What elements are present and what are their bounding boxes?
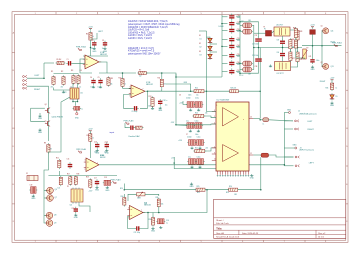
- ground C24: [189, 130, 192, 132]
- svg-text:D3: D3: [199, 51, 201, 53]
- inductor L3b: [242, 29, 253, 34]
- wire long bottom rail: [124, 189, 261, 191]
- junction IC1B out: [147, 90, 149, 92]
- wire bottom rail from zobel: [240, 67, 259, 73]
- wire pot to C42: [74, 102, 76, 106]
- svg-text:Kostka DAC: Kostka DAC: [129, 135, 141, 138]
- svg-text:GND: GND: [330, 105, 335, 107]
- junction supply branch: [175, 76, 177, 78]
- connector X1 pin 4: [23, 87, 27, 89]
- svg-text:10k: 10k: [161, 204, 164, 206]
- wire R10 to IC1B: [123, 87, 132, 89]
- svg-text:LEFT: LEFT: [308, 121, 314, 123]
- frame division ticks bottom: [56, 240, 305, 242]
- svg-text:C10u: C10u: [195, 97, 199, 99]
- resistor R13: [151, 96, 154, 107]
- capacitor C42 electrolytic: [73, 107, 81, 111]
- wire rail stub up: [123, 184, 125, 190]
- capacitor C3: [103, 41, 107, 47]
- svg-text:Q11: Q11: [331, 31, 334, 33]
- ground input divider: [62, 91, 65, 93]
- transistor Q7: [46, 195, 54, 202]
- ground near RL2: [269, 65, 272, 67]
- svg-text:Q8: Q8: [54, 215, 56, 217]
- resistor R35: [330, 82, 333, 91]
- capacitor C13: [95, 142, 99, 148]
- connector X1 pin 1: [23, 75, 27, 77]
- svg-text:R10: R10: [119, 78, 122, 80]
- resistor R11: [160, 78, 163, 88]
- notes text block (component sizes): [128, 20, 180, 40]
- svg-text:C11 1u: C11 1u: [163, 100, 168, 102]
- svg-text:R17: R17: [67, 174, 70, 176]
- frame division ticks left: [12, 52, 15, 204]
- svg-text:C31: C31: [237, 22, 240, 24]
- resistor R1: [52, 75, 55, 85]
- svg-text:R3: R3: [71, 70, 73, 72]
- svg-text:C37: C37: [237, 70, 240, 72]
- wire C21 to inverting input: [128, 217, 135, 229]
- ground C27: [198, 147, 201, 149]
- svg-text:P2: P2: [65, 92, 67, 94]
- wire C36 right lead: [236, 62, 240, 64]
- svg-text:F1: F1: [264, 27, 266, 29]
- junction -15V node 2: [173, 162, 175, 164]
- junction pot b: [77, 101, 79, 103]
- junction protection rail: [312, 45, 314, 47]
- wire Q4 source to gnd: [39, 113, 41, 115]
- svg-text:C10u: C10u: [195, 121, 199, 123]
- wire R26 R27: [289, 49, 291, 52]
- svg-text:File: hb-7.sch: File: hb-7.sch: [216, 223, 229, 225]
- svg-text:R9: R9: [111, 78, 113, 80]
- svg-text:100n: 100n: [237, 56, 240, 58]
- svg-text:6: 6: [242, 241, 243, 243]
- svg-text:10u: 10u: [165, 105, 168, 107]
- svg-text:C1u: C1u: [188, 157, 191, 159]
- svg-text:Title:: Title:: [216, 227, 222, 230]
- wire to IC2 pin4: [176, 123, 216, 126]
- svg-text:(INPUT wzmacn): (INPUT wzmacn): [299, 150, 314, 152]
- capacitor C27 electrolytic: [195, 140, 204, 146]
- connector J2 pin 1: [295, 120, 299, 122]
- svg-text:J3: J3: [300, 148, 302, 150]
- junction ladder left b: [221, 46, 223, 48]
- svg-text:C34: C34: [237, 45, 240, 47]
- capacitor C29 electrolytic: [195, 159, 204, 165]
- wire lower rail horizontal: [48, 175, 117, 177]
- wire to R5: [44, 62, 54, 64]
- svg-text:1u: 1u: [81, 108, 83, 110]
- wire R32 to output node: [152, 213, 154, 217]
- svg-text:GND: GND: [74, 217, 79, 219]
- ground C23: [197, 109, 200, 111]
- svg-text:KiCad E.D.A. kicad 4.0.6: KiCad E.D.A. kicad 4.0.6: [216, 236, 240, 239]
- svg-text:100n: 100n: [237, 24, 240, 26]
- wire L1 to connector: [269, 120, 293, 121]
- svg-text:100n: 100n: [237, 17, 240, 19]
- svg-text:47k: 47k: [51, 87, 54, 89]
- wire C40 to RL2: [282, 58, 284, 62]
- svg-text:10k: 10k: [292, 47, 295, 49]
- op-amp U2 power amplifier IC2 body: [216, 102, 249, 171]
- wire X1 right signal: [27, 86, 48, 96]
- svg-text:Q5: Q5: [45, 121, 47, 123]
- wire C38 top: [258, 48, 260, 58]
- wire vertical to -15V node: [175, 74, 177, 125]
- svg-text:GND: GND: [105, 190, 110, 192]
- wire C37 right lead: [236, 71, 240, 73]
- ground C13: [95, 149, 100, 155]
- wire pot P2 pin a down: [72, 99, 74, 102]
- wire C30 left lead: [222, 16, 228, 18]
- svg-text:7: 7: [284, 241, 285, 243]
- svg-text:GND: GND: [38, 132, 43, 134]
- svg-text:22k: 22k: [205, 113, 208, 115]
- wire to R23: [204, 90, 230, 92]
- svg-text:1k: 1k: [124, 84, 126, 86]
- frame division ticks top: [56, 12, 305, 15]
- svg-text:D1: D1: [200, 39, 202, 41]
- wire output up to relay network: [259, 48, 261, 119]
- svg-text:Q1: Q1: [321, 26, 323, 28]
- ground C5: [99, 86, 102, 88]
- wire to F1: [254, 32, 266, 34]
- wire IC3 feedback: [141, 213, 148, 229]
- capacitor C39: [280, 39, 285, 45]
- resistor R18: [74, 175, 77, 185]
- svg-text:GND: GND: [311, 69, 316, 71]
- svg-text:Q13: Q13: [331, 66, 334, 68]
- wire Q4 gate: [31, 107, 45, 109]
- svg-text:10u: 10u: [196, 95, 199, 97]
- svg-text:IC4B: IC4B: [100, 155, 103, 157]
- wire RL2 to R33: [291, 62, 298, 67]
- resistor R22: [193, 90, 206, 93]
- wire F2 down: [312, 34, 314, 45]
- wire R20 to IC2 pin2: [204, 116, 216, 118]
- capacitor C1: [66, 61, 72, 65]
- capacitor C34 ladder: [229, 43, 234, 49]
- capacitor C14: [105, 142, 109, 148]
- wire protection rail: [302, 45, 342, 47]
- resistor R36: [294, 39, 297, 50]
- svg-text:1k: 1k: [336, 88, 338, 90]
- wire resistor bottom rail: [54, 88, 79, 91]
- wire C30 right lead: [236, 16, 240, 18]
- svg-text:100n: 100n: [188, 95, 192, 97]
- svg-text:C35: C35: [237, 54, 240, 56]
- capacitor C19 electrolytic: [29, 187, 37, 194]
- fuse F2: [310, 30, 316, 35]
- svg-text:C30: C30: [237, 15, 240, 17]
- wire resistor top rail: [54, 73, 79, 75]
- capacitor C41: [310, 58, 314, 64]
- svg-text:8: 8: [325, 13, 326, 15]
- svg-text:1: 1: [35, 241, 36, 243]
- resistor R14: [89, 132, 92, 142]
- svg-text:3: 3: [118, 241, 119, 243]
- wire IC4A output long to connector J3: [99, 164, 284, 166]
- junction R7 R10: [122, 72, 124, 74]
- svg-text:R31: R31: [156, 197, 159, 199]
- ground C41: [311, 66, 316, 72]
- svg-text:LEFT: LEFT: [309, 162, 315, 164]
- svg-text:C37: C37: [255, 35, 258, 37]
- junction IC3 out: [147, 212, 149, 214]
- svg-text:C1u: C1u: [186, 121, 189, 123]
- svg-text:GND: GND: [293, 145, 298, 147]
- wire LEFT label stub: [91, 33, 98, 39]
- ground C4: [92, 86, 95, 88]
- ground R13: [151, 107, 154, 109]
- title block outline: [214, 199, 346, 238]
- resistor R31: [157, 198, 160, 208]
- power flag PWR_FLAG IC1A rail: [76, 46, 86, 51]
- svg-text:C21 100p: C21 100p: [134, 232, 141, 234]
- ground C19: [31, 195, 36, 201]
- wire C34 right lead: [236, 45, 240, 47]
- IC2 bottom pins row: [217, 171, 249, 176]
- svg-text:C100n: C100n: [187, 137, 192, 139]
- resistor R10: [121, 77, 124, 87]
- junction R31 output: [158, 212, 160, 214]
- svg-text:GND: GND: [92, 51, 97, 53]
- svg-text:R15: R15: [56, 158, 59, 160]
- svg-text:4: 4: [159, 241, 160, 243]
- svg-text:14: 14: [250, 117, 252, 119]
- svg-text:2: 2: [76, 241, 77, 243]
- connector J3 ground pin: [293, 145, 298, 149]
- junction IC3 out rail: [206, 189, 208, 191]
- resistor R8: [47, 143, 50, 153]
- junction feedback node: [206, 90, 208, 92]
- ground C29: [198, 166, 201, 168]
- wire R15 down: [58, 171, 60, 176]
- svg-text:50k: 50k: [70, 205, 73, 207]
- svg-text:J2: J2: [298, 111, 300, 113]
- junction zobel mid: [258, 47, 260, 49]
- svg-text:100n: 100n: [91, 48, 95, 50]
- wire rail to L4b: [240, 69, 242, 71]
- junction ladder left a: [221, 23, 223, 25]
- svg-text:Q9: Q9: [54, 223, 56, 225]
- ground Q4: [38, 115, 43, 121]
- svg-text:C37 100n: C37 100n: [252, 44, 259, 46]
- capacitor C33 ladder: [229, 36, 234, 42]
- transistor Q11: [322, 28, 329, 34]
- svg-text:+C14: +C14: [104, 142, 108, 144]
- wire C35 left lead: [222, 55, 228, 57]
- ground C2: [92, 47, 97, 53]
- svg-text:R13: R13: [149, 96, 152, 98]
- wire L2 to connector: [269, 155, 294, 157]
- wire L4 to output rail: [252, 48, 255, 70]
- wire to R7: [107, 72, 136, 74]
- resistor R24: [227, 188, 239, 191]
- wire X1 left signal: [27, 77, 44, 79]
- wire feedback to inverting input: [124, 95, 133, 109]
- svg-text:R34: R34: [293, 28, 296, 30]
- wire rail to C40: [282, 48, 284, 52]
- junction R30 rail: [124, 189, 126, 191]
- junction R11 top: [161, 72, 163, 74]
- svg-text:12: 12: [250, 153, 252, 155]
- junction bottom rail: [239, 72, 241, 74]
- svg-text:2k2: 2k2: [139, 76, 142, 78]
- connector X2 jack: [27, 176, 38, 181]
- power flag PWR_FLAG center: [124, 119, 134, 124]
- svg-text:+15V: +15V: [310, 25, 315, 27]
- svg-text:IC2 TDA7294V: IC2 TDA7294V: [217, 99, 230, 102]
- wire R14 down to rail: [89, 143, 91, 159]
- svg-text:RIGHT: RIGHT: [308, 129, 315, 131]
- resistor R17: [69, 175, 72, 185]
- ground C20: [74, 214, 79, 220]
- potentiometer P1 (dual) body: [71, 188, 83, 204]
- wire J2 pin1 stub: [284, 120, 293, 122]
- capacitor C5: [98, 78, 102, 84]
- wire C39 to rail: [282, 45, 284, 47]
- wire R3 to pot P2 pin a: [72, 84, 74, 89]
- svg-text:GND: GND: [250, 178, 255, 180]
- capacitor C17: [95, 179, 99, 185]
- capacitor C35 ladder: [229, 52, 234, 58]
- junction top rail: [239, 21, 241, 23]
- svg-text:100n: 100n: [91, 87, 95, 89]
- svg-text:C9 100p: C9 100p: [132, 111, 138, 113]
- wire C32 right lead: [236, 29, 240, 31]
- ground C25: [197, 130, 200, 132]
- wire C37 left lead: [222, 71, 228, 73]
- transistor Q13: [322, 63, 329, 69]
- wire C34 left lead: [222, 45, 228, 47]
- power flag PWR_FLAG IC4A: [76, 148, 86, 153]
- junction feedback right: [259, 90, 261, 92]
- wire +15V to C22: [183, 101, 187, 105]
- wire C33 left lead: [222, 39, 228, 41]
- wire cap ladder right rail: [239, 15, 241, 76]
- svg-text:IC3: IC3: [145, 203, 148, 205]
- notes text block 2 (electrolytics): [128, 47, 161, 56]
- capacitor C38 zobel: [255, 57, 262, 63]
- wire C32 left lead: [222, 29, 228, 31]
- op-amp triangle IC2 section B: [223, 145, 239, 162]
- wire C37 top: [258, 33, 260, 37]
- node polarity mark pot output: [76, 113, 78, 115]
- wire pot wiper to mute rail: [48, 97, 70, 152]
- svg-text:D1: D1: [199, 35, 201, 37]
- svg-text:PWR_FLAG: PWR_FLAG: [76, 148, 86, 151]
- svg-text:F1: F1: [264, 29, 266, 31]
- svg-text:7: 7: [284, 13, 285, 15]
- wire R28 to rail: [297, 40, 299, 48]
- svg-text:5: 5: [201, 13, 202, 15]
- junction output rail right: [297, 47, 299, 49]
- transistor Q5 JFET: [45, 121, 50, 127]
- svg-text:R25: R25: [197, 192, 200, 194]
- wire L3 to output rail: [252, 25, 255, 47]
- junction output node 1: [259, 119, 261, 121]
- capacitor C25 electrolytic: [194, 123, 203, 129]
- wire RL1 to C39: [282, 36, 284, 39]
- junction R6 node: [90, 47, 92, 49]
- svg-text:4: 4: [159, 13, 160, 15]
- ground C16: [159, 226, 162, 228]
- resistor R32: [151, 216, 154, 226]
- svg-text:1u: 1u: [166, 222, 168, 224]
- svg-text:22k: 22k: [164, 84, 167, 86]
- wire R10 bottom: [122, 87, 124, 88]
- svg-text:R24: R24: [229, 186, 232, 188]
- wire IC3 output to bottom rail: [143, 190, 207, 213]
- IC2 right pins: [249, 117, 253, 156]
- junction zobel: [253, 47, 255, 49]
- svg-text:GND: GND: [158, 110, 163, 112]
- resistor R26: [289, 38, 292, 50]
- svg-text:R30: R30: [121, 196, 124, 198]
- wire J3 pin1 stub: [284, 156, 293, 158]
- connector J3 pin 2: [295, 165, 299, 167]
- svg-text:100n: 100n: [237, 47, 240, 49]
- wire F1 to relay RL1: [272, 31, 275, 33]
- svg-text:C17: C17: [94, 178, 97, 180]
- wire J3 gnd stub: [284, 147, 295, 149]
- svg-text:10u: 10u: [102, 48, 105, 50]
- resistor R5: [56, 61, 66, 64]
- wire rail to L4a: [240, 63, 242, 65]
- svg-text:GND: GND: [190, 186, 195, 188]
- capacitor C21 feedback: [135, 226, 141, 230]
- wire R11 to output node: [148, 88, 162, 91]
- wire cont: [176, 90, 194, 92]
- potentiometer P2 (dual volume) body: [70, 88, 79, 99]
- frame row letters: [13, 31, 349, 223]
- diode D2: [208, 45, 212, 52]
- svg-text:NE5532: NE5532: [100, 54, 107, 56]
- svg-text:Q4: Q4: [45, 104, 47, 106]
- svg-text:1k: 1k: [71, 86, 73, 88]
- power +15V LED +15V: [330, 78, 335, 82]
- svg-text:C1: C1: [67, 59, 69, 61]
- resistor R33: [296, 51, 299, 63]
- svg-text:R33: R33: [300, 59, 303, 61]
- svg-text:22k: 22k: [110, 84, 113, 86]
- power flag PWR_FLAG lower: [111, 179, 121, 184]
- wire IC1B output: [145, 90, 148, 92]
- svg-text:100n: 100n: [148, 106, 152, 108]
- svg-text:GND: GND: [151, 231, 156, 233]
- ground LED: [330, 102, 335, 108]
- svg-text:C20: C20: [72, 208, 75, 210]
- svg-text:R7: R7: [139, 70, 141, 72]
- svg-text:PWR_FLAG: PWR_FLAG: [76, 46, 86, 49]
- wire to Q13: [321, 46, 324, 67]
- svg-text:C13: C13: [94, 142, 97, 144]
- svg-text:100n: 100n: [237, 31, 240, 33]
- svg-text:10k: 10k: [80, 93, 83, 95]
- svg-text:C18: C18: [104, 177, 107, 179]
- title block divider lines: [214, 218, 346, 239]
- svg-text:R2: R2: [61, 71, 63, 73]
- wire R33 to rail: [297, 48, 299, 53]
- IC2 left pins: [212, 110, 216, 161]
- wire cap ladder left rail: [221, 15, 223, 77]
- svg-text:10u: 10u: [104, 152, 107, 154]
- junction ladder right a: [239, 30, 241, 32]
- ground C3: [103, 47, 108, 53]
- op-amp IC1B: [129, 82, 153, 98]
